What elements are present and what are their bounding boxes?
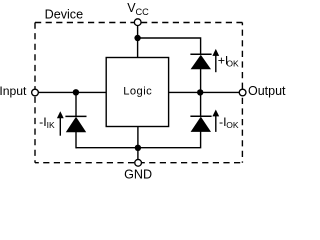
diode input clamp anode triangle — [66, 117, 86, 132]
wire input node to clamp diode — [75, 92, 77, 116]
diode output clamp to Vcc cathode bar — [190, 53, 211, 55]
svg-text:Device: Device — [45, 7, 84, 21]
svg-text:GND: GND — [124, 167, 152, 181]
wire GND stem — [137, 148, 139, 163]
terminal GND — [135, 159, 142, 166]
wire Vcc junction to upper diode — [138, 38, 201, 55]
terminal Output — [239, 89, 246, 96]
wire GND bus left — [76, 147, 138, 149]
wire input rail — [38, 91, 106, 93]
arrow +Iok current — [215, 53, 217, 72]
arrow -Iik current — [59, 114, 61, 136]
junction input node — [73, 89, 79, 95]
terminal Input — [32, 89, 39, 96]
wire lower diode to GND bus — [138, 132, 201, 148]
device boundary left edge — [34, 23, 36, 163]
svg-text:Output: Output — [248, 84, 286, 98]
device boundary top edge — [35, 22, 242, 24]
wire input diode to GND bus — [75, 131, 77, 148]
diode input clamp (to GND) cathode bar — [65, 115, 86, 117]
terminal Vcc — [134, 19, 141, 26]
diode output clamp to GND anode triangle — [191, 117, 211, 132]
junction output node — [197, 89, 203, 95]
junction GND node — [135, 145, 141, 151]
wire Logic bottom to GND node — [137, 127, 139, 148]
Logic box — [106, 58, 168, 127]
svg-text:Input: Input — [0, 84, 27, 98]
svg-text:VCC: VCC — [127, 1, 149, 17]
device boundary bottom edge — [35, 162, 242, 164]
svg-text:Logic: Logic — [123, 85, 152, 97]
svg-text:-IOK: -IOK — [219, 115, 239, 130]
svg-text:-IIK: -IIK — [39, 115, 55, 130]
device boundary right edge — [241, 23, 243, 89]
svg-text:+IOK: +IOK — [218, 54, 239, 69]
diode output clamp to Vcc anode triangle — [191, 55, 211, 69]
wire Vcc stem into Logic — [137, 23, 139, 58]
wire upper diode to output node — [200, 69, 202, 93]
wire output rail — [169, 91, 240, 93]
junction Vcc node — [134, 35, 140, 41]
diode output clamp to GND cathode bar — [190, 115, 211, 117]
device boundary right edge lower part — [241, 98, 243, 163]
arrow -Iok current — [215, 113, 217, 132]
wire output node to lower diode — [200, 92, 202, 116]
